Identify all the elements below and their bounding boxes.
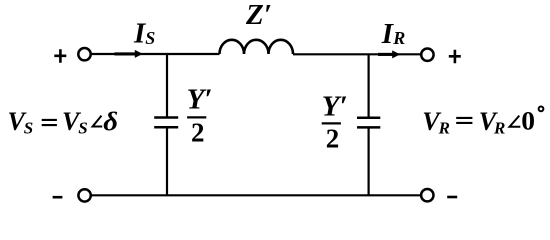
delta symbol [103,107,118,135]
wire top-left horizontal [92,53,220,55]
svg-text:R: R [493,119,505,138]
svg-text:2: 2 [326,123,340,153]
digit 0 [521,106,535,135]
terminal circle top-right [421,49,433,61]
minus sign bottom-left [53,196,63,199]
angle symbol right [510,116,521,127]
svg-text:2: 2 [191,118,205,148]
svg-text:0: 0 [521,106,535,135]
svg-text:R: R [392,28,405,48]
degree symbol [539,107,544,112]
svg-text:Z′: Z′ [245,0,272,31]
terminal circle bottom-left [78,189,90,201]
current arrow I_S [115,52,137,55]
fraction bar left [187,116,206,118]
terminal circle top-left [78,48,90,60]
wire right shunt branch upper [368,54,370,117]
terminal circle bottom-right [421,189,433,201]
svg-text:Y′: Y′ [187,83,213,115]
plus sign top-left [54,49,66,62]
minus sign bottom-right [447,196,457,199]
svg-text:S: S [78,118,87,137]
wire top-right horizontal [293,53,421,55]
plus sign top-right [449,50,461,63]
svg-text:δ: δ [103,107,118,135]
svg-text:Y′: Y′ [322,90,348,122]
inductor Z' (series impedance, 3 loops) [220,40,294,54]
capacitor Y'/2 left plates [154,118,178,128]
fraction bar right [322,122,341,124]
wire right shunt branch lower [368,128,370,195]
svg-text:S: S [24,118,33,137]
current arrow I_R [378,53,393,56]
wire bottom horizontal [92,194,420,196]
svg-text:R: R [438,119,450,138]
wire left shunt branch lower [166,128,168,195]
wire left shunt branch upper [166,54,168,117]
angle symbol left [93,116,103,127]
svg-text:S: S [145,28,155,48]
capacitor Y'/2 right plates [357,118,380,128]
